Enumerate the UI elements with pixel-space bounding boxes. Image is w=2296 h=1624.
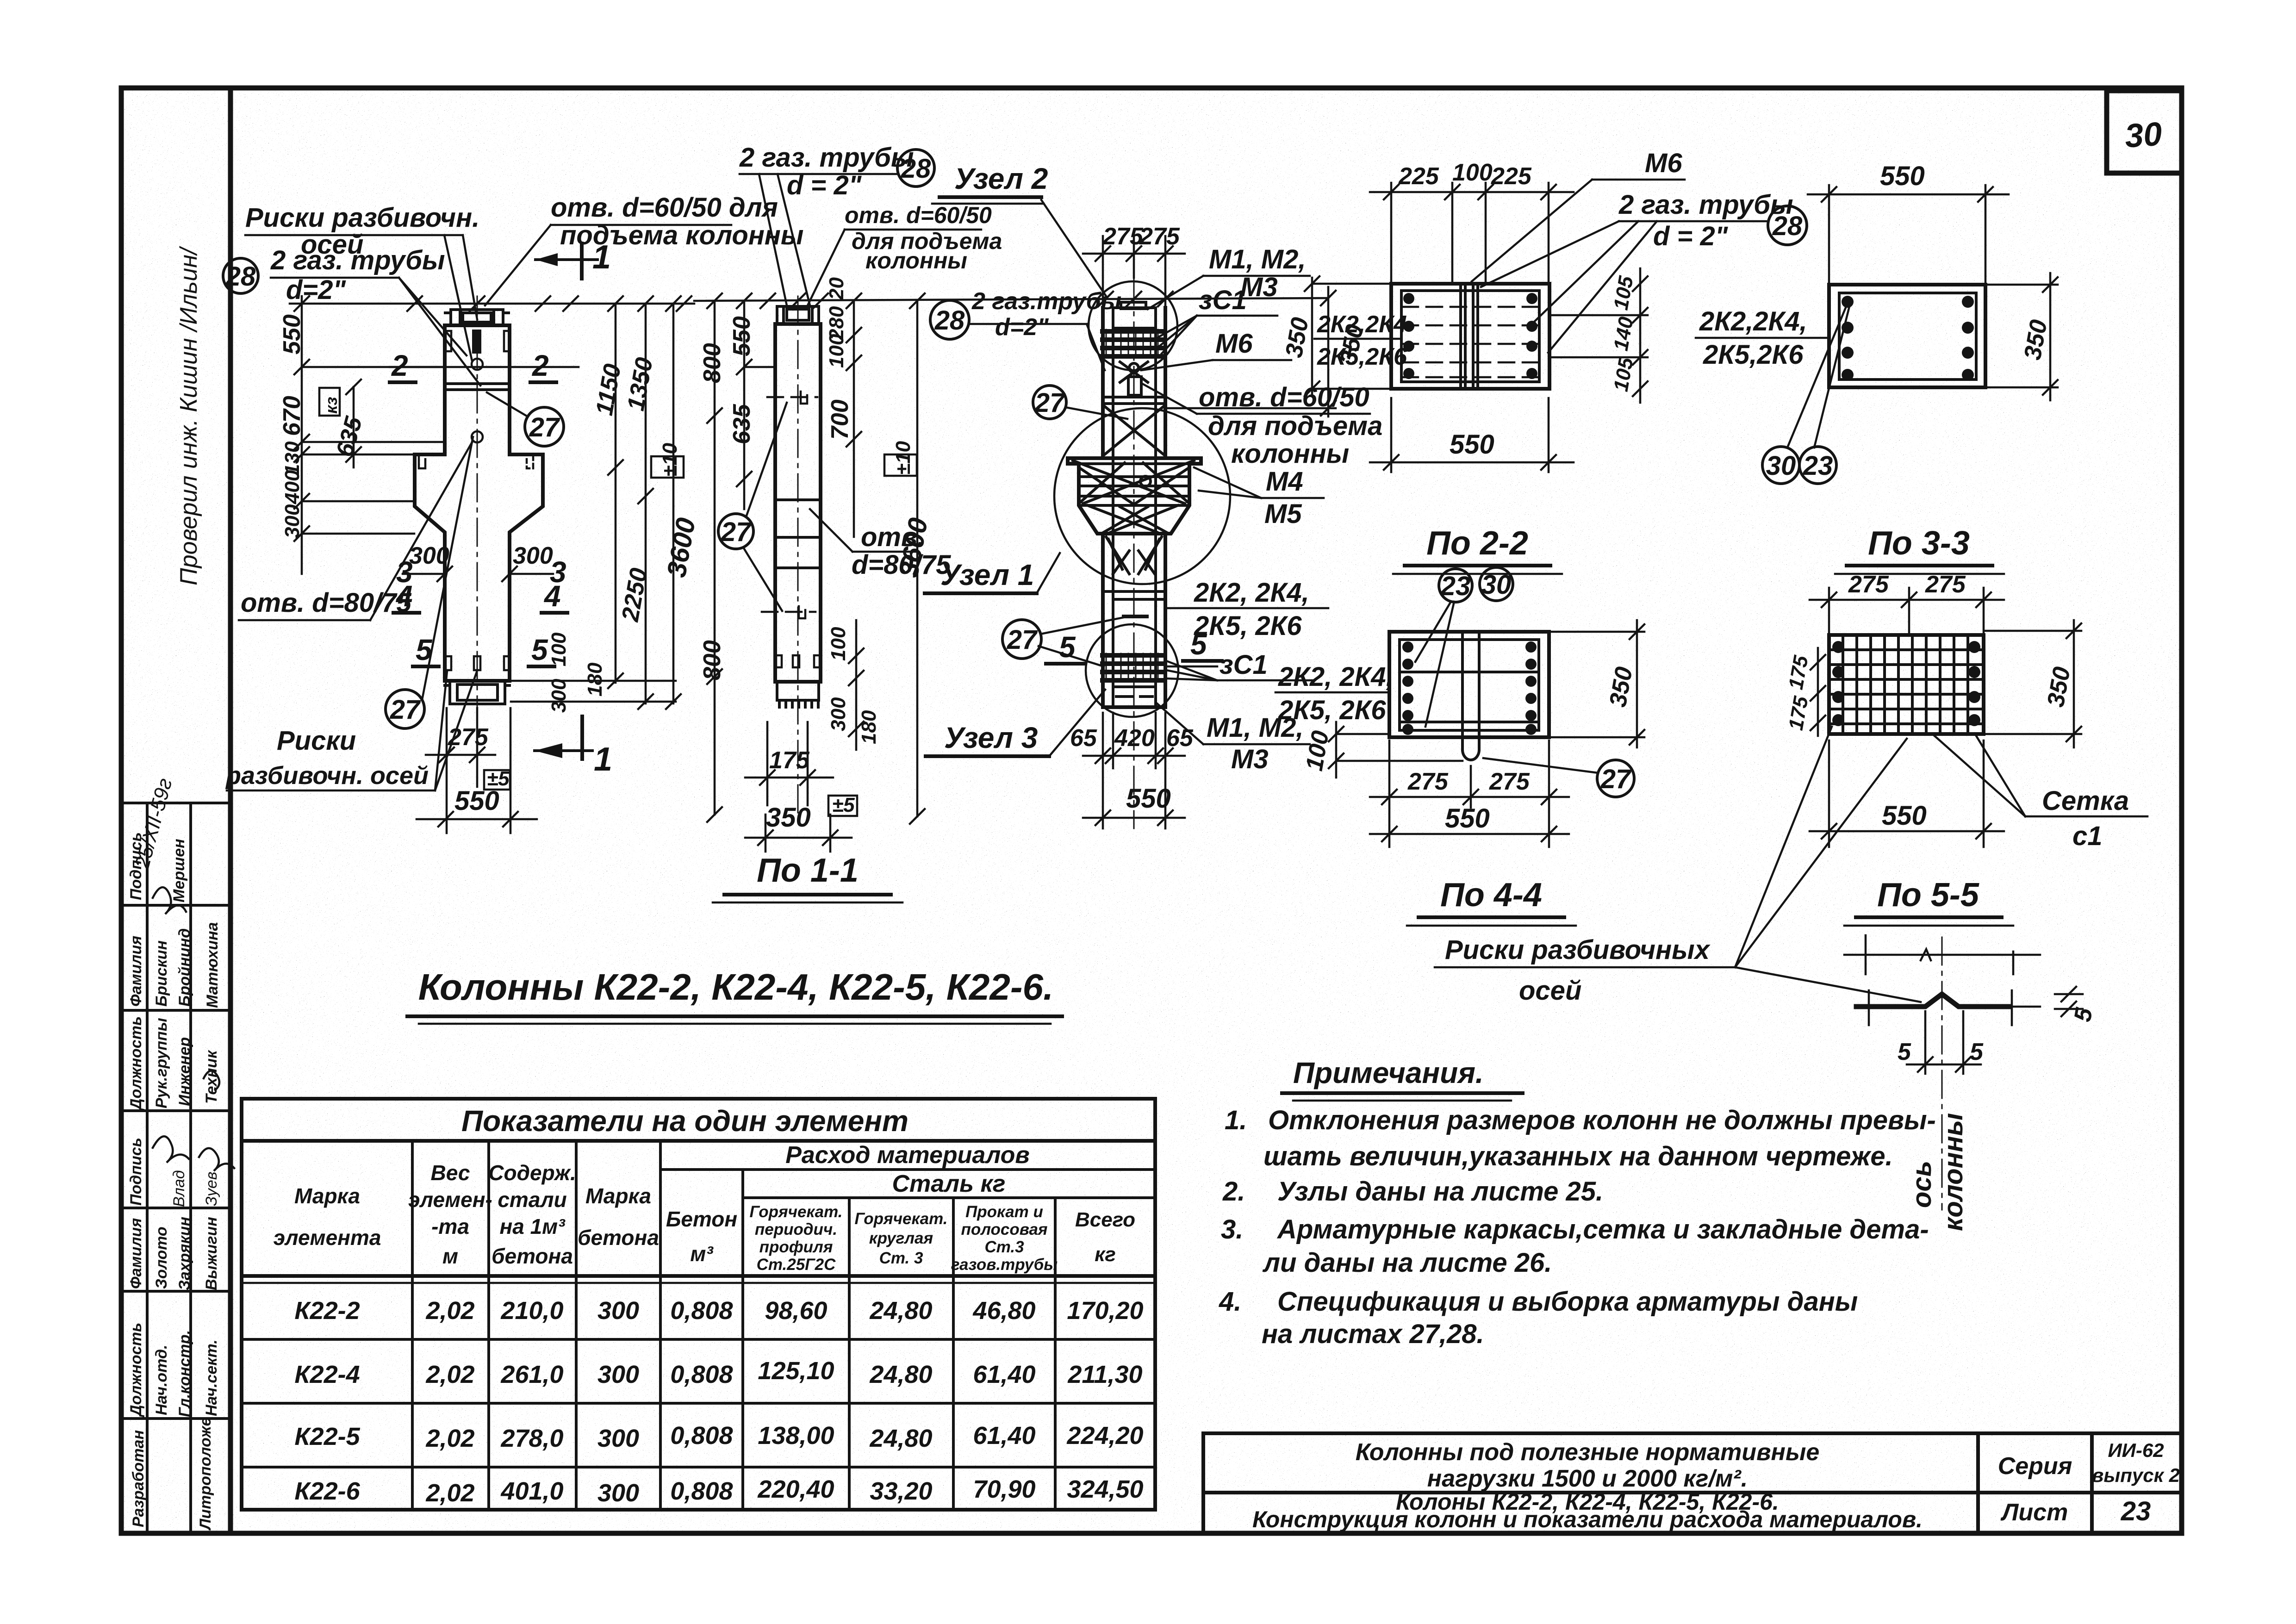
lower right dims 100 300 180 — [849, 620, 864, 750]
notes Примечания — [1219, 1056, 1936, 1349]
pos circle 27 lower — [386, 690, 424, 728]
section line 2-2 level — [390, 366, 579, 368]
lower shaft diagriffs — [1103, 537, 1165, 599]
section A left dim 350 — [1305, 276, 1390, 396]
По 2-2 dim 350 right — [1550, 620, 1644, 747]
column 3 bottom cap — [1113, 687, 1156, 707]
узел 2 title — [932, 162, 1106, 296]
column 3 corbel block — [1068, 458, 1201, 534]
section cut arrow 1 top — [535, 239, 611, 279]
section mark 3 left + dim 300 — [396, 542, 452, 589]
label Сетка с1 — [1935, 736, 2147, 851]
pos circle 28 view3 — [930, 288, 1121, 370]
column 1 inner joint lines — [445, 384, 510, 390]
frame stamp divider — [228, 88, 233, 1533]
section B top dim 550 — [1808, 185, 2009, 283]
label 2 газ трубы d=2" + pos 28 section A — [1481, 190, 1807, 353]
column 1 axis mark dots — [472, 359, 483, 370]
table data rows — [294, 1297, 1143, 1507]
bottom dim 275 — [426, 708, 495, 833]
По 3-3 dim 350 right — [1985, 620, 2081, 747]
Узел 3 title — [926, 690, 1105, 756]
tolerance box ±5 view2 — [828, 796, 857, 816]
bottom dim 175 view2 — [745, 722, 833, 805]
column 1 bottom embed detail — [445, 681, 510, 704]
column 1 outline — [415, 325, 543, 681]
узел 2 circle — [1089, 281, 1177, 370]
section mark 2 right — [530, 349, 556, 382]
bottom dim 550 — [417, 708, 537, 833]
column 3 outer edges — [1103, 308, 1165, 707]
column 3 inner cage lines — [1113, 309, 1156, 703]
label 2К2 2К4 2К5 2К6 view3 — [1165, 578, 1328, 641]
label риски разбивочных осей — [1435, 727, 1921, 1006]
frame outer border — [121, 88, 2182, 1533]
По 3-3 dim 550 — [1810, 740, 2004, 847]
right chain 3600 view2 — [910, 293, 925, 824]
column 2 centerline — [797, 296, 799, 828]
section B body — [1829, 285, 1985, 387]
stamp signature scribbles — [153, 887, 234, 1171]
section B label 2К2,2К4 2К5,2К6 — [1696, 306, 1828, 370]
section title По 1-1 — [713, 852, 902, 902]
stamp grid lines — [121, 802, 230, 804]
table header texts — [274, 1161, 738, 1268]
indicators table — [242, 1099, 1155, 1510]
top dim line — [290, 303, 694, 305]
table outer box — [242, 1099, 1155, 1510]
aux dim 635 — [353, 387, 355, 467]
По 2-2 body — [1389, 632, 1549, 737]
column 2 bottom cap — [777, 682, 819, 707]
label отв. d=80/75 (view2) — [810, 509, 951, 580]
section A rebar dots — [1403, 293, 1537, 379]
sheet frame — [121, 88, 2182, 1533]
По 2-2 rebar dots — [1402, 641, 1537, 735]
По 5-5 axis sketch — [1844, 935, 2040, 974]
Узел 1 title — [925, 553, 1060, 593]
right dim chain 1150/1350 — [511, 296, 676, 709]
section mark 3 right + dim 300 — [502, 542, 566, 589]
top dim line view2 — [694, 298, 1328, 301]
tolerance box ±5 — [484, 770, 510, 790]
section A right dims 105 140 105 — [1550, 268, 1648, 403]
mesh horizontal lines — [1829, 650, 1984, 724]
axis tick crosses — [1869, 990, 2012, 1074]
column 3 pipe sleeve detail — [1102, 362, 1165, 404]
label отв d=60/50 для подъема колонны view2 — [808, 202, 1002, 305]
label М6 — [1141, 329, 1291, 370]
label М1 М2 М3 top — [1148, 244, 1310, 309]
По 3-3 dims 275 275 — [1810, 588, 2004, 634]
pos circle 27 upper — [525, 407, 564, 446]
stamp rotated header texts — [127, 832, 221, 1531]
label отв d=60/50 для подъема колонны view3 — [1143, 382, 1382, 469]
column 1 top cap embed — [445, 310, 509, 325]
section mark 5 right — [529, 633, 554, 666]
mesh rebar dots — [1832, 641, 1980, 726]
stamp column left — [121, 246, 234, 1533]
section A gas pipes — [1461, 286, 1478, 387]
left inner chain 550 635 — [737, 293, 775, 509]
column 2 outline — [775, 324, 821, 682]
pos circles 30 23 section B — [1762, 447, 1799, 484]
dim 275 275 top view3 — [1083, 236, 1185, 305]
column 3 lower mesh band зС1 — [1102, 655, 1165, 680]
pos circle 27 upper view3 — [1033, 386, 1066, 419]
label риски разбивочн. осей top — [245, 203, 479, 361]
right small dim 5 — [2055, 987, 2083, 1016]
узел 1 circle — [1054, 408, 1230, 584]
section mark 5 right view3 — [1183, 628, 1222, 661]
label зС1 top — [1157, 285, 1277, 354]
page number box — [2107, 91, 2182, 173]
table row lines — [242, 1338, 1155, 1341]
label отв. d=80/75 left — [239, 441, 473, 620]
axis main line with peak — [1856, 994, 2010, 1007]
pos circles 23 30 По 2-2 — [1439, 569, 1472, 602]
section A body — [1391, 284, 1549, 389]
кз box label — [319, 388, 340, 416]
section B right dim 350 — [1986, 273, 2058, 400]
По 2-2 label 2К2 2К4 2К5 2К6 — [1276, 662, 1394, 725]
section mark 4 right — [541, 579, 567, 613]
bottom dim 350 view2 — [745, 815, 852, 852]
mesh vertical lines — [1843, 635, 1968, 734]
table title row line — [242, 1139, 1155, 1143]
column 1 pipe mark — [472, 330, 481, 354]
table header band lines — [660, 1168, 1155, 1171]
section B rebar dots — [1842, 296, 1974, 381]
column 2 joint lines — [775, 500, 821, 568]
dim 65 420 65 — [1083, 713, 1185, 828]
right dim 3600 with tolerance — [666, 296, 681, 709]
label отв. d=60/50 для подъема колонны — [485, 193, 803, 305]
section mark 4 left — [393, 579, 419, 613]
По 3-3 mesh body — [1829, 635, 1984, 734]
pos circle 27 lower view3 — [1002, 620, 1041, 659]
column 3 upper X brace — [1103, 405, 1165, 456]
pos circle 28 with 2 газ трубы (view2) — [739, 143, 934, 305]
label М4 М5 — [1194, 467, 1324, 529]
column 1 small lug marks — [419, 331, 533, 670]
right dim 350 view3 — [1166, 287, 1336, 417]
right small chain 20 280 100 700 — [846, 293, 861, 537]
По 2-2 dims 275 275 — [1370, 740, 1569, 847]
dim 550 bottom view3 — [1083, 810, 1185, 825]
section cut arrow 1 bottom — [535, 716, 612, 778]
column 3 top cap — [1113, 302, 1156, 328]
leader lines to mesh and axis — [1735, 727, 1832, 967]
label зС1 lower — [1166, 650, 1314, 680]
section A label 2К2,2К4 2К5,2К6 — [1314, 311, 1407, 370]
section A bottom dim 550 — [1370, 398, 1574, 472]
table column lines — [411, 1141, 414, 1510]
label М1 М2 М3 bottom — [1157, 703, 1310, 774]
section mark 5 left view3 — [1046, 630, 1085, 664]
section mark 5 left — [413, 633, 439, 666]
axis centerline — [1941, 937, 1943, 1210]
column 2 top cap — [777, 306, 819, 324]
По 2-2 dim 100 left — [1329, 722, 1462, 778]
По 2-2 U loop — [1462, 632, 1479, 760]
label риски разбивочн. осей bottom — [225, 671, 477, 790]
section mark 2 left — [390, 349, 416, 382]
left dim chain — [294, 296, 444, 574]
label М6 section A — [1472, 148, 1685, 281]
corbel cross bracing — [1073, 460, 1194, 574]
main heading Колонны К22 — [407, 966, 1062, 1024]
pos circle 27 (view2) — [718, 514, 753, 549]
left outer chain 800 — [707, 293, 722, 822]
column 2 hidden dash marks — [762, 392, 820, 667]
section A dims 225 100 225 — [1370, 183, 1574, 282]
column 1 centerline — [477, 296, 478, 768]
По 2-2 dim 550 — [1370, 827, 1569, 841]
label 2 газ. трубы with pos 28 — [223, 245, 480, 386]
column 3 top mesh band зС1 — [1102, 331, 1165, 356]
title block — [1203, 1433, 2180, 1533]
По 3-3 dims 175 175 — [1811, 648, 1825, 736]
section A dashed core lines — [1402, 307, 1539, 377]
pos circle 27 По 2-2 — [1597, 760, 1634, 797]
column 3 centerline — [1133, 278, 1135, 828]
pos 27 dash target — [1124, 615, 1147, 618]
узел 3 circle — [1086, 624, 1178, 717]
